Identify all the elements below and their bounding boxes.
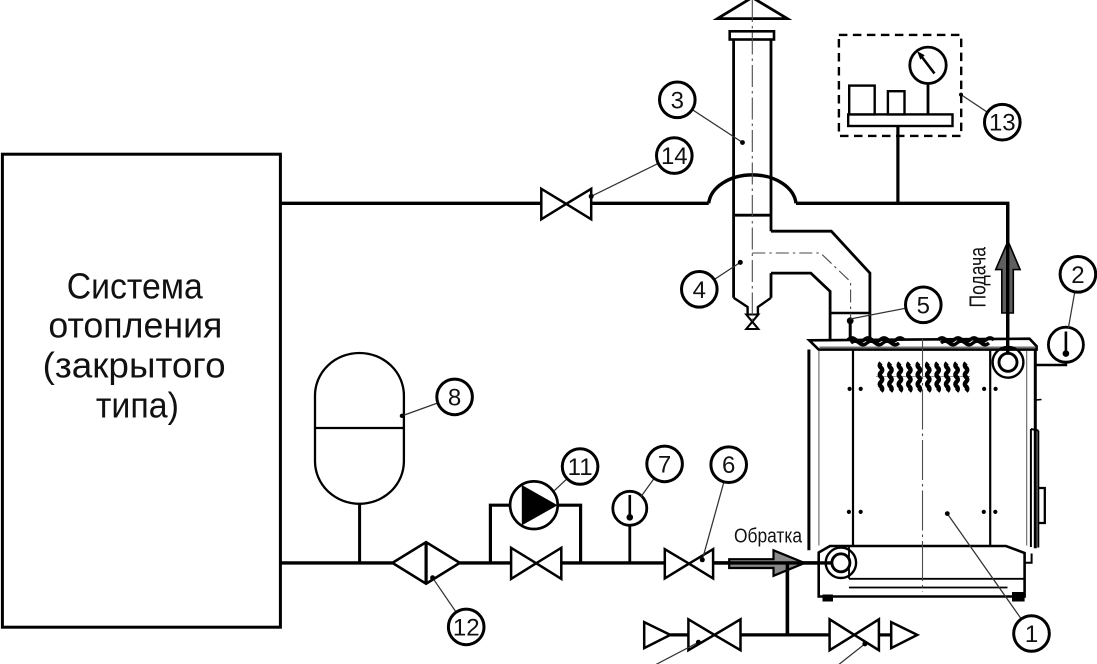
callout circle 14 (valve) [657, 138, 693, 174]
boiler heating elements [880, 363, 967, 391]
supply arrow (Подача) [996, 241, 1020, 313]
svg-text:6: 6 [722, 452, 735, 479]
boiler front panel left [852, 350, 854, 546]
leader dot on check valve (12) [430, 575, 435, 580]
flue stub joint [829, 312, 870, 315]
wire expansion tank stem [358, 503, 361, 563]
chimney right wall [770, 40, 773, 232]
leader dot on flue tee (4) [738, 260, 743, 265]
wire drain right [879, 633, 891, 636]
leader line 7 [641, 464, 665, 497]
callout circle 13 (control panel) [985, 104, 1021, 140]
wire return between valve and valve6 [561, 561, 665, 564]
boiler screws [847, 387, 998, 514]
callout circle 4 (flue tee) [682, 272, 718, 308]
leader line 3 [677, 100, 742, 143]
leader line 2 [1068, 274, 1078, 328]
check valve 12 [392, 542, 459, 584]
svg-text:Подача: Подача [965, 246, 991, 307]
boiler supply port [993, 347, 1024, 378]
chimney collar [730, 31, 774, 39]
boiler hatching left group [848, 338, 904, 342]
gauge needle [920, 55, 935, 74]
svg-text:4: 4 [693, 277, 706, 304]
drain valve right [830, 619, 879, 650]
wire drain left [670, 633, 688, 636]
leader line 8 [400, 397, 455, 417]
panel block large [849, 86, 875, 115]
boiler drawer lines [849, 546, 1025, 588]
chimney divider [734, 214, 771, 217]
leader line 13 [961, 95, 1002, 123]
svg-text:Система: Система [67, 266, 204, 307]
centerline flue elbow [752, 253, 850, 319]
wire supply mid [591, 202, 709, 205]
leader line 4 [699, 262, 740, 289]
callout circle 3 (chimney) [660, 82, 696, 118]
leader dot on boiler (1) [945, 511, 950, 516]
boiler bottom-right hook [1025, 554, 1032, 563]
svg-text:отопления: отопления [48, 305, 222, 346]
svg-text:Обратка: Обратка [734, 525, 803, 548]
boiler flame guideline [876, 376, 970, 378]
leader lines [400, 95, 1078, 664]
boiler foot left [823, 595, 834, 602]
dashed enclosure [839, 35, 961, 136]
leader dot on panel box (13) [959, 93, 963, 97]
wire drain branch overlay [786, 563, 789, 635]
gauge stem [927, 83, 930, 114]
leader line 1 [947, 514, 1031, 634]
gauge [910, 47, 946, 83]
boiler front panel right [989, 350, 991, 546]
leader line 12 [433, 578, 467, 627]
callout circle 12 (check valve) [448, 609, 484, 645]
wire return overlay through arrow [713, 561, 831, 564]
wire thermometer7 stem [628, 525, 631, 563]
leader dots [400, 93, 963, 647]
boiler top slab [809, 339, 1036, 350]
boiler 3d line left [818, 351, 820, 546]
wire thermometer2 connector [1036, 362, 1066, 366]
leader dot on drain valve left [696, 640, 701, 645]
svg-text:5: 5 [917, 292, 930, 319]
leader line 6 [702, 465, 728, 560]
wire return to boiler port [713, 561, 841, 564]
svg-text:7: 7 [658, 451, 671, 478]
callout circle 11 (pump) [562, 449, 598, 485]
callout circle 8 (expansion tank) [437, 379, 473, 415]
valve under pump [511, 548, 561, 579]
leader line 5 [850, 305, 923, 319]
boiler door [1031, 429, 1038, 548]
drain flow arrow right [891, 622, 917, 648]
boiler body right edge [1034, 350, 1037, 548]
leader dot on valve 14 [589, 194, 594, 199]
boiler [809, 317, 1045, 601]
leader dot on tank (8) [400, 414, 404, 418]
thermometer 7 [613, 491, 647, 525]
callout circle 6 (valve) [711, 447, 747, 483]
boiler door tick [1034, 399, 1042, 402]
chimney [718, 0, 871, 341]
valve 14 [541, 189, 591, 220]
wire return between check valve and pump bypass [460, 561, 511, 564]
svg-text:2: 2 [1071, 262, 1084, 289]
leader dot on valve (6) [700, 557, 705, 562]
drain valve left [688, 619, 740, 650]
thermometer 2 [1048, 327, 1083, 362]
boiler return port [826, 548, 856, 578]
control panel 13 [839, 35, 961, 136]
flue sensor 5 [849, 321, 852, 340]
pipes [280, 126, 1066, 635]
svg-text:11: 11 [568, 454, 593, 481]
leader line drain left [656, 642, 699, 664]
boiler 3d line right [1026, 351, 1028, 546]
svg-text:3: 3 [671, 87, 684, 114]
svg-text:14: 14 [661, 143, 688, 170]
wire supply overlay through arrow [1006, 203, 1009, 352]
boiler centerline [922, 339, 924, 592]
callout circle 5 (flue sensor) [906, 287, 942, 323]
pump 11 [510, 481, 558, 529]
pipe crossing arc over chimney [709, 175, 796, 203]
drain flow arrow left [644, 622, 670, 648]
boiler foot right [1012, 592, 1025, 602]
chimney right wall lower [770, 273, 773, 298]
label circles [437, 82, 1096, 651]
wire drain middle [741, 633, 830, 636]
wire supply top left [280, 202, 541, 205]
centerline chimney [751, 0, 753, 322]
svg-text:8: 8 [448, 384, 461, 411]
wire supply right + down to boiler port [796, 203, 1008, 361]
svg-text:1: 1 [1025, 621, 1038, 648]
chimney drain cock [746, 315, 758, 330]
panel base plate [848, 114, 952, 126]
leader line 11 [554, 467, 580, 491]
wire return from system box [280, 561, 392, 564]
svg-text:типа): типа) [96, 385, 179, 426]
return arrow (Обратка) [729, 550, 804, 576]
leader dot on drain valve right [862, 641, 867, 646]
chimney funnel [734, 298, 771, 315]
svg-text:(закрытого: (закрытого [43, 345, 226, 386]
boiler hatching right group [938, 338, 994, 342]
svg-text:12: 12 [453, 614, 480, 641]
leader dot on chimney (3) [740, 140, 745, 145]
callout circle 1 (boiler) [1014, 616, 1050, 652]
flue elbow outer wall [771, 231, 870, 341]
chimney left wall [732, 40, 735, 298]
wire drain branch [786, 563, 789, 635]
leader line 14 [591, 156, 674, 197]
leader line drain right [839, 644, 865, 664]
panel block small [888, 91, 905, 114]
wire control panel stem [896, 126, 899, 203]
wire pump bypass loop [490, 505, 580, 564]
boiler body left edge [807, 350, 810, 551]
flue elbow inner wall [771, 273, 830, 341]
callout circle 7 (thermometer) [647, 446, 683, 482]
valve 6 [665, 549, 713, 578]
svg-text:13: 13 [989, 110, 1016, 137]
callout circle 2 (thermometer) [1060, 257, 1096, 293]
heating system box [2, 154, 280, 627]
chimney cap [718, 0, 788, 19]
boiler door handle [1039, 488, 1045, 523]
boiler bottom box [819, 546, 1025, 597]
expansion tank 8 [314, 353, 404, 504]
